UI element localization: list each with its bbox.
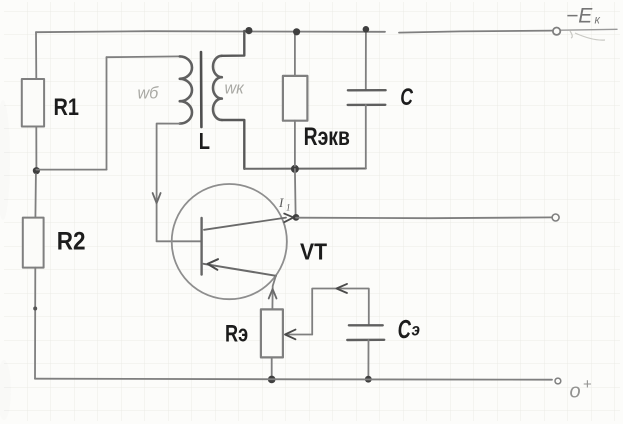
wire stroke right of -Ek terminal: [561, 28, 617, 31]
transistor VT circle: [172, 184, 287, 299]
capacitor C bottom plate: [348, 104, 386, 106]
wire winding wk bottom down to tank node line: [222, 120, 245, 169]
resistor R1: [22, 79, 44, 127]
wire R1 bottom to node A: [35, 127, 37, 169]
terminal 0+: [555, 378, 561, 384]
svg-text:1: 1: [286, 203, 291, 213]
svg-text:Rэкв: Rэкв: [304, 123, 350, 151]
ink blob on left wire: [33, 307, 37, 311]
node C junction dot: [293, 214, 300, 221]
wire winding wb bottom to base, with down arrow: [157, 124, 180, 242]
wire C bottom to tank node line: [365, 105, 367, 169]
arrow down on base feed wire: [153, 193, 161, 203]
node G junction dot (top rail / wk): [245, 27, 252, 34]
svg-text:R1: R1: [54, 93, 79, 120]
faint pencil squiggle under -Ek: [570, 31, 605, 40]
wire emitter down to Re: [272, 276, 275, 309]
svg-text:R2: R2: [57, 228, 86, 256]
resistor R2: [23, 218, 44, 268]
svg-text:L: L: [199, 129, 210, 154]
svg-text:+: +: [583, 376, 592, 393]
terminal -Ek: [553, 28, 560, 35]
wire Rekv bottom to node B: [294, 121, 296, 166]
collector current arrowhead at node C: [284, 214, 293, 223]
svg-text:C: C: [400, 85, 413, 111]
svg-text:−E: −E: [566, 5, 593, 28]
wire Ce to bottom rail: [367, 340, 369, 377]
transistor VT emitter line with arrow toward base (pnp): [204, 264, 277, 276]
wire Re bottom to bottom rail: [271, 357, 273, 377]
capacitor Ce top plate: [349, 324, 383, 326]
transistor VT base bar: [200, 218, 202, 275]
wire middle output rail: [296, 216, 552, 219]
svg-text:о: о: [570, 380, 581, 402]
node B junction dot: [291, 165, 299, 173]
wire into transistor base: [157, 240, 202, 242]
svg-text:к: к: [595, 15, 601, 27]
wiper arrow into Re: [288, 334, 313, 336]
resistor Re: [261, 309, 283, 357]
node F junction dot (top rail / C): [363, 26, 370, 33]
svg-text:С: С: [398, 315, 412, 344]
node E junction dot: [365, 376, 372, 383]
transformer core of L: [200, 52, 203, 127]
svg-text:I: I: [278, 195, 284, 210]
wire top rail right segment: [399, 31, 552, 33]
wire bottom rail: [35, 379, 552, 380]
wire top rail left segment: [36, 31, 385, 32]
wire left vertical from top rail to R1: [35, 32, 37, 79]
svg-text:wк: wк: [225, 78, 245, 97]
inductor L winding wb: [180, 56, 192, 123]
resistor Rekv: [283, 76, 308, 121]
wire wiper up and over to Ce: [312, 289, 369, 335]
paper smudges: [0, 100, 11, 420]
node H junction dot (top rail / Rekv): [293, 28, 300, 35]
svg-text:э: э: [412, 319, 420, 339]
arrow up on emitter wire: [269, 289, 277, 299]
wire winding wk top to top rail: [222, 31, 245, 56]
resistor Rekv branch from top rail: [294, 32, 296, 76]
wire vertical up to winding wb: [106, 57, 108, 169]
svg-text:wб: wб: [138, 83, 159, 102]
transistor VT collector line: [204, 218, 286, 230]
capacitor C branch from top rail: [365, 31, 367, 90]
wire tank bottom node line: [244, 168, 365, 170]
inductor L winding wk: [213, 56, 222, 120]
node A junction dot: [33, 167, 40, 174]
capacitor Ce bottom plate: [347, 339, 384, 342]
wire horizontal to winding wb top: [107, 55, 180, 58]
wire node A down to R2: [34, 174, 37, 218]
svg-text:Rэ: Rэ: [225, 320, 248, 347]
wire node B down to collector node: [294, 169, 297, 214]
emitter arrowhead: [208, 259, 219, 270]
svg-text:VT: VT: [300, 238, 327, 264]
node D junction dot: [268, 376, 276, 384]
wire node A to base branch corner: [36, 169, 106, 171]
terminal middle output: [552, 214, 559, 221]
wire R2 bottom to bottom rail: [34, 268, 36, 379]
capacitor C top plate: [348, 89, 386, 92]
arrow left on Ce top wire: [337, 284, 348, 293]
